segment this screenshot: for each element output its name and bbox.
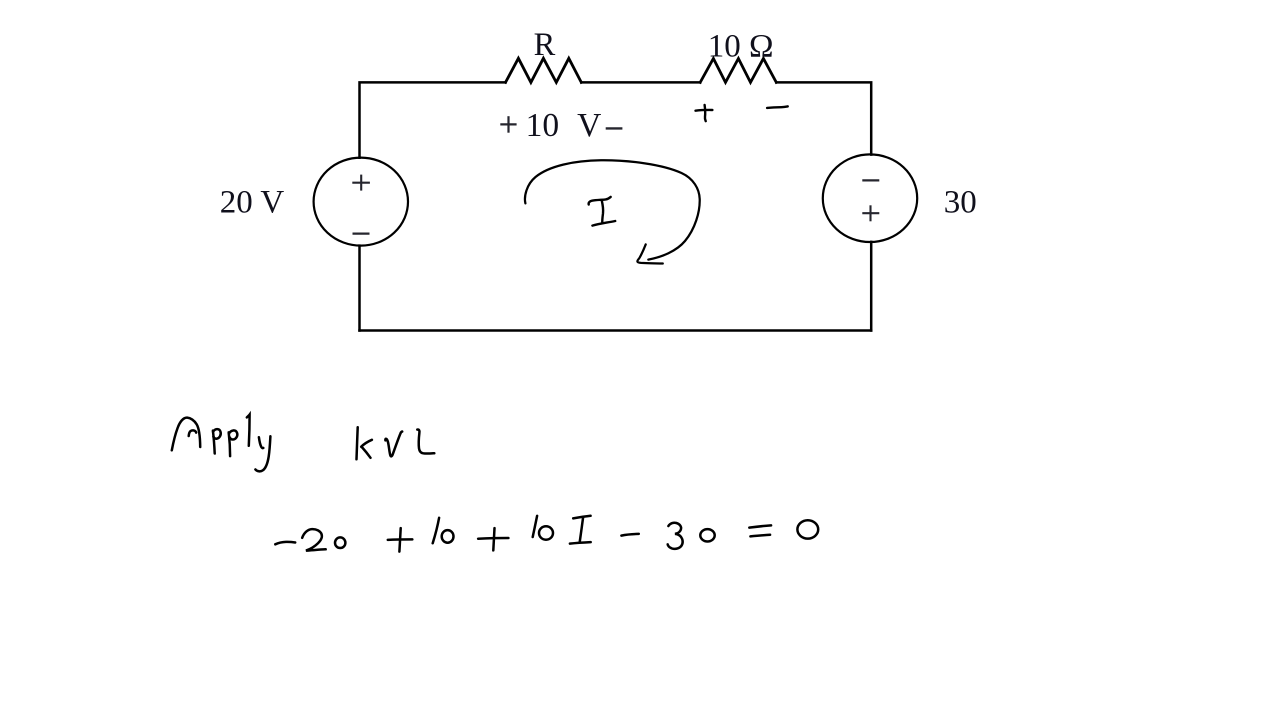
polarity plus of V1 bbox=[352, 175, 370, 191]
svg-text:10 Ω: 10 Ω bbox=[708, 28, 774, 64]
voltage source V2 circle bbox=[823, 154, 917, 242]
polarity plus of V2 bbox=[862, 205, 879, 221]
polarity minus of V2 bbox=[862, 179, 879, 181]
handwritten equation +10I second bbox=[478, 516, 591, 551]
current loop arrow bbox=[525, 160, 700, 263]
svg-text:R: R bbox=[534, 27, 556, 63]
handwritten minus under R2 bbox=[767, 106, 788, 108]
handwritten plus under R2 bbox=[696, 105, 713, 121]
wire bottom segment bbox=[360, 329, 872, 332]
handwritten equation -30 bbox=[621, 523, 714, 549]
handwritten equation =0 bbox=[749, 520, 818, 538]
wire left-lower segment bbox=[358, 246, 361, 331]
svg-text:20 V: 20 V bbox=[220, 185, 285, 221]
svg-text:30: 30 bbox=[944, 184, 977, 220]
polarity minus of V1 bbox=[353, 233, 370, 235]
minus dash of +10V label bbox=[606, 127, 623, 129]
svg-text:10: 10 bbox=[526, 107, 560, 144]
voltage source V1 circle bbox=[314, 158, 408, 246]
plus sign of +10V label bbox=[500, 116, 516, 133]
handwritten word kVL bbox=[357, 427, 435, 459]
svg-text:V: V bbox=[577, 107, 601, 144]
handwritten equation +10 first bbox=[388, 518, 454, 552]
wire top-left segment bbox=[360, 82, 506, 157]
resistor R zigzag bbox=[506, 58, 582, 82]
handwritten equation -20 bbox=[275, 529, 345, 551]
wire right-lower segment bbox=[870, 242, 873, 331]
handwritten word Apply bbox=[172, 415, 271, 472]
resistor R2 10ohm zigzag bbox=[700, 59, 776, 83]
handwritten current label I bbox=[589, 197, 616, 226]
wire top-middle segment bbox=[581, 81, 700, 84]
wire top-right segment bbox=[776, 82, 871, 154]
